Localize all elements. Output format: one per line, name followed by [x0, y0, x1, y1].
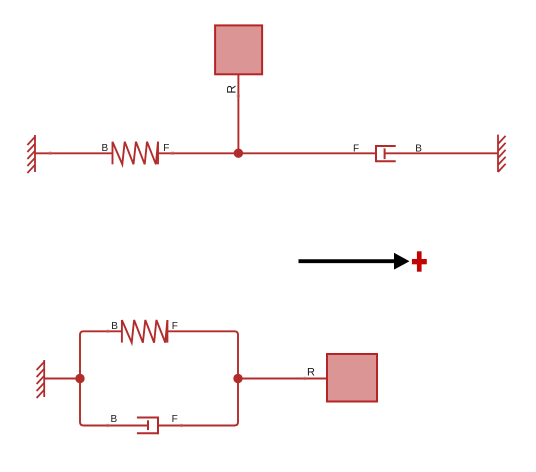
- spring S2: [122, 320, 167, 343]
- wire midpoint marker: [171, 152, 175, 155]
- wire midpoint marker: [237, 94, 240, 98]
- svg-text:B: B: [102, 143, 109, 154]
- svg-text:R: R: [307, 367, 315, 379]
- svg-text:F: F: [172, 321, 178, 332]
- spring S1: [113, 142, 159, 165]
- wire midpoint marker: [303, 377, 307, 380]
- red plus marker: [417, 251, 422, 271]
- svg-text:R: R: [225, 85, 239, 94]
- node N1 (junction dot): [234, 149, 243, 158]
- damper D2 (cup open left): [137, 417, 158, 435]
- wire node N3 to mass M2: [238, 378, 327, 380]
- wire wall W1 to spring S1: [35, 152, 113, 154]
- mass M2: [327, 354, 377, 402]
- fixed wall W1 (top-left): [27, 135, 35, 173]
- svg-text:F: F: [353, 144, 359, 155]
- arrow (transform indicator): [299, 259, 397, 263]
- node N3 (junction dot): [233, 374, 242, 383]
- damper D1 (cup open right): [376, 145, 396, 162]
- loop wires (left vertical, corners, branch stubs): [80, 331, 238, 425]
- wire midpoint marker: [106, 424, 110, 427]
- wire midpoint marker: [48, 152, 52, 155]
- wire midpoint marker: [180, 424, 184, 427]
- mass M1: [215, 25, 262, 74]
- wire spring S1 to node N1: [158, 152, 238, 154]
- node N2 (junction dot): [75, 374, 84, 383]
- wire wall W3 to node N2: [44, 378, 80, 380]
- fixed wall W2 (top-right): [498, 135, 506, 172]
- svg-text:B: B: [111, 414, 118, 425]
- wire damper D1 rod to wall W2: [385, 152, 498, 154]
- svg-text:F: F: [163, 143, 169, 154]
- wire node N1 to mass M1: [237, 74, 239, 153]
- svg-text:F: F: [172, 414, 178, 425]
- fixed wall W3 (bottom-left): [37, 360, 45, 398]
- svg-text:B: B: [111, 321, 118, 332]
- wire midpoint marker: [106, 330, 110, 333]
- wire node N1 to damper D1: [238, 152, 376, 154]
